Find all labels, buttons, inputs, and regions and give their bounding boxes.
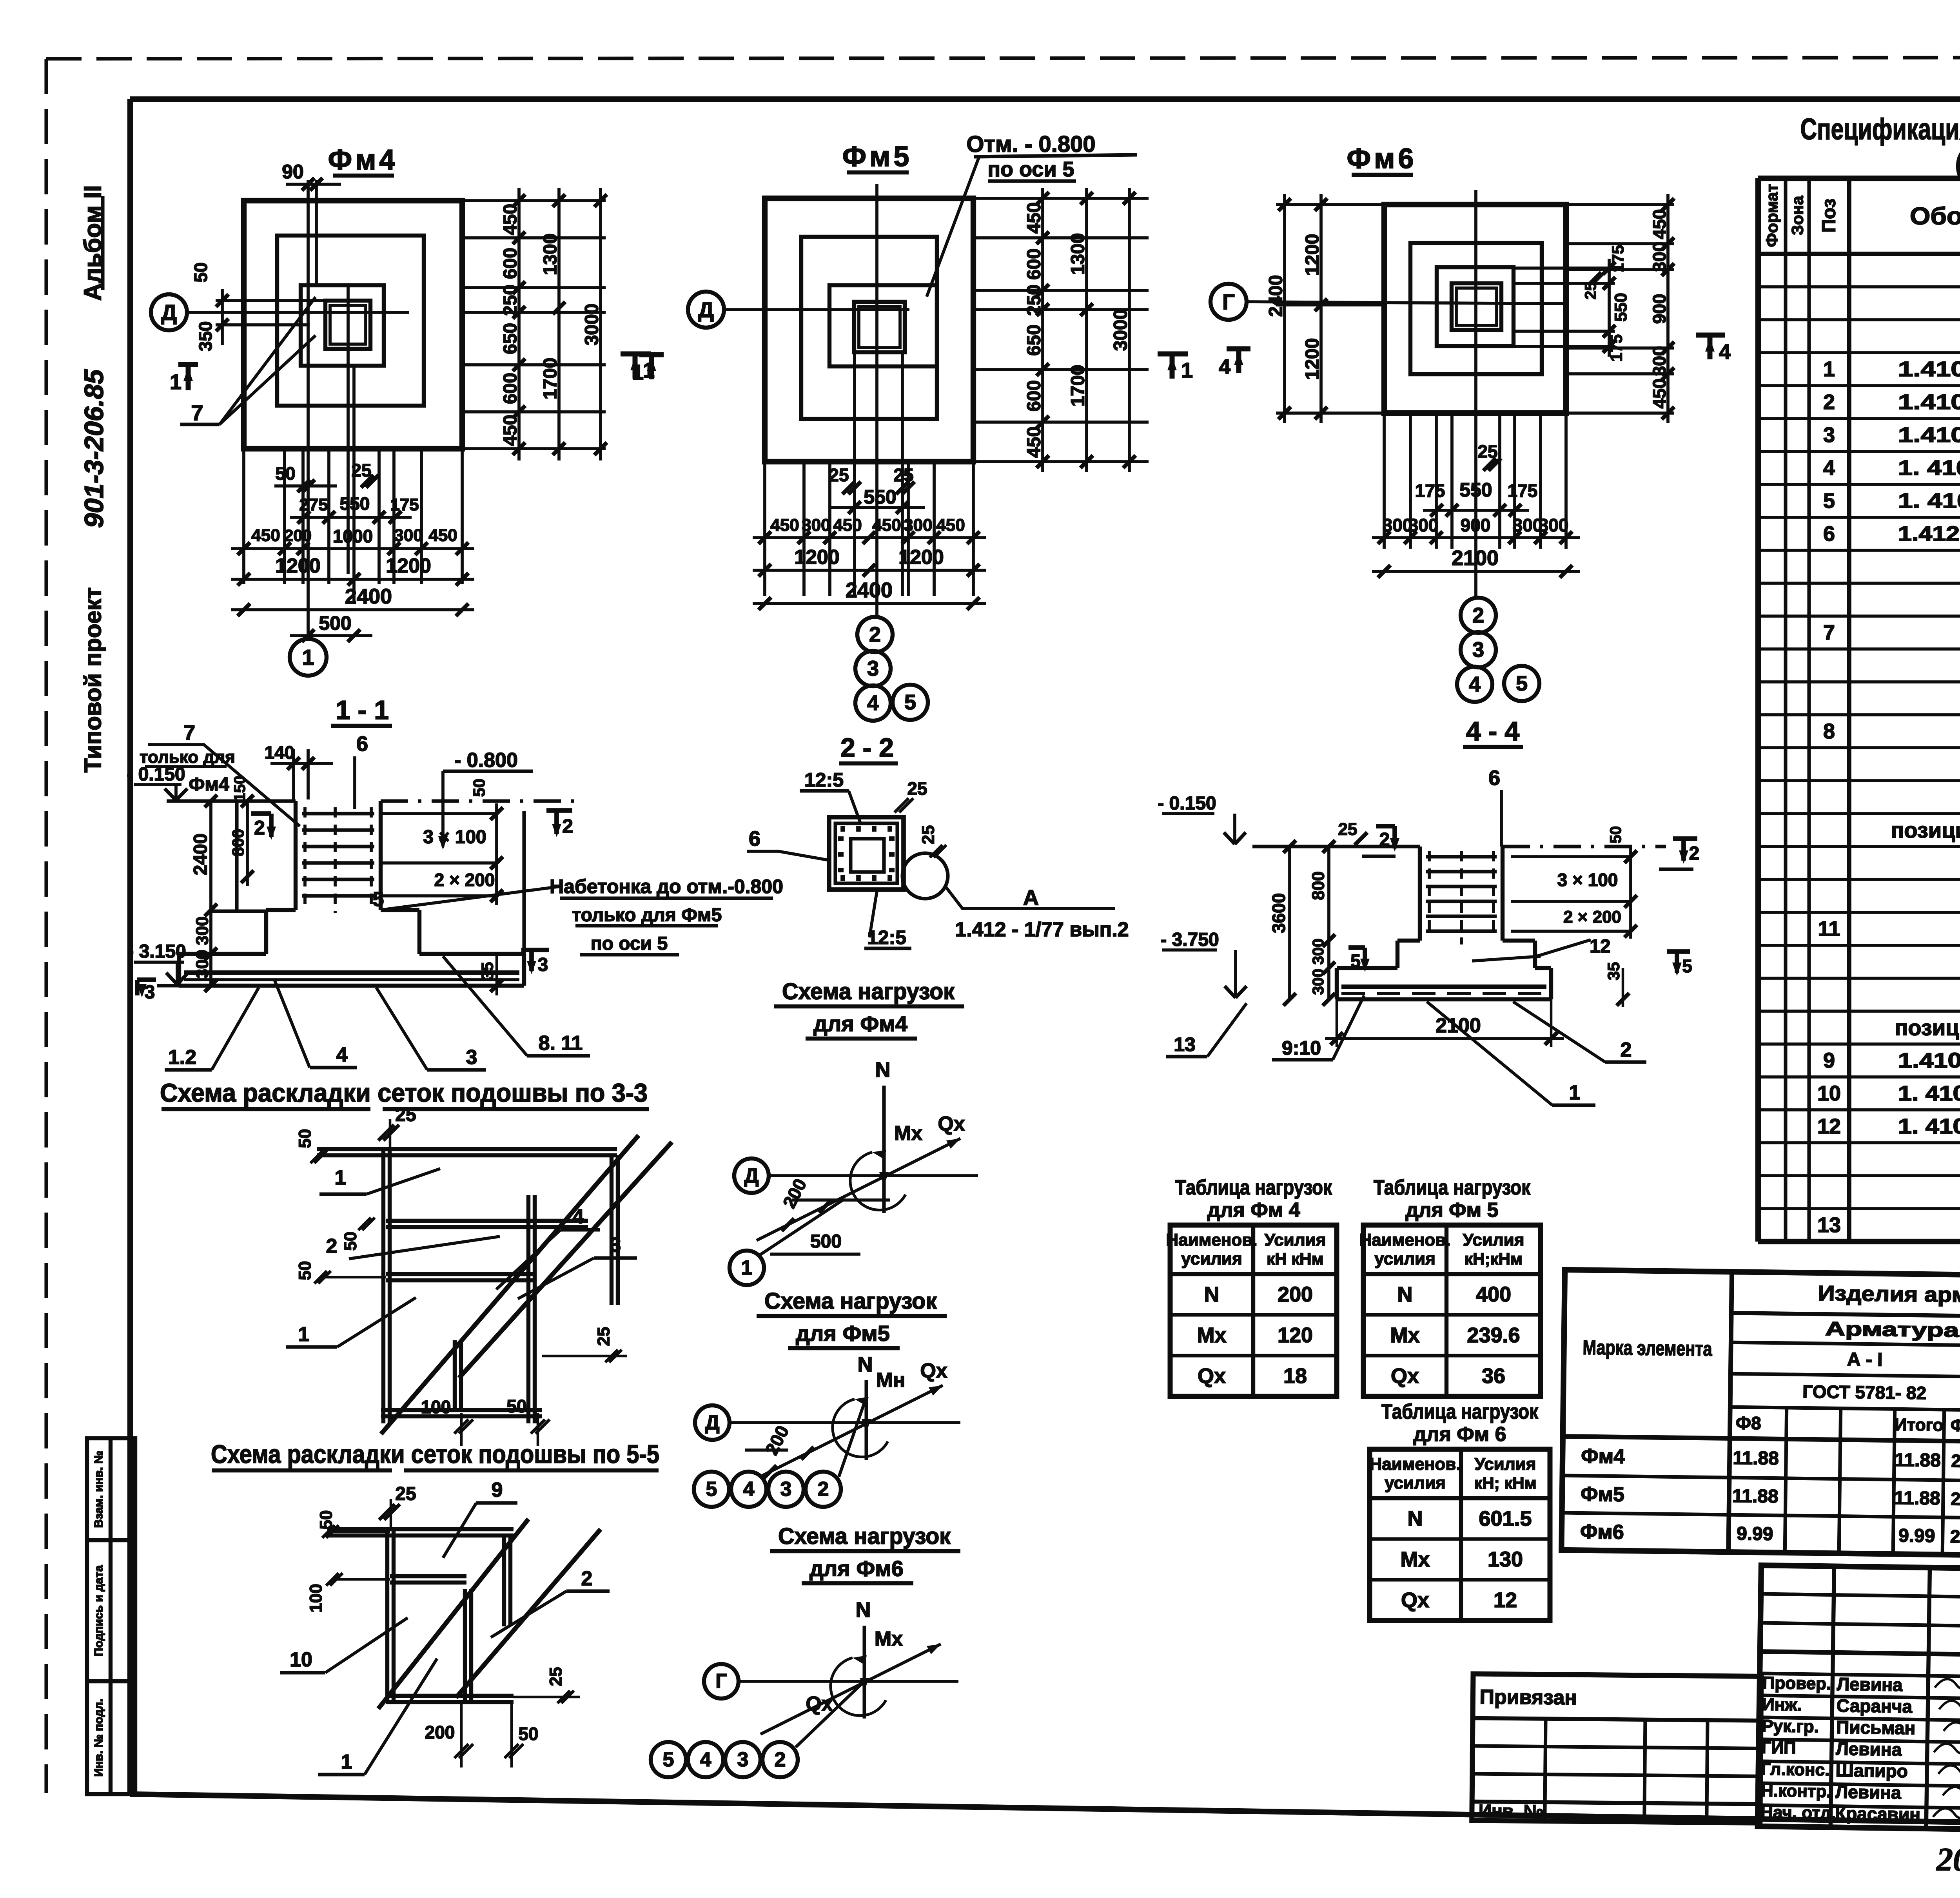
svg-text:1 - 1: 1 - 1 — [336, 695, 389, 725]
section 2-2 rebar dots — [840, 826, 845, 832]
svg-text:2400: 2400 — [1266, 275, 1287, 317]
svg-text:А - I: А - I — [1847, 1349, 1883, 1370]
load scheme Фм5 bubbles 5 4 3 2 — [694, 1472, 729, 1507]
plan Фм4 dim chain 1200 1200 — [231, 578, 474, 581]
svg-text:Привязан: Привязан — [1479, 1686, 1577, 1709]
svg-text:8: 8 — [1823, 720, 1835, 743]
svg-text:4: 4 — [1719, 340, 1731, 364]
svg-text:2400: 2400 — [846, 578, 893, 602]
svg-text:300: 300 — [1408, 515, 1439, 535]
svg-text:Типовой проект: Типовой проект — [80, 587, 106, 773]
plan Фм6 dim chain 300 300 900 300 300 — [1372, 536, 1580, 539]
svg-text:250: 250 — [1024, 285, 1045, 316]
plan Фм4 section mark 1 left — [178, 362, 198, 367]
svg-text:5: 5 — [706, 1478, 717, 1501]
svg-text:25.2: 25.2 — [1951, 1488, 1960, 1509]
svg-text:300: 300 — [1649, 346, 1670, 376]
plan Фм5 right dim extensions — [973, 197, 1149, 200]
plan Фм4 axis 1 bubble — [290, 639, 327, 676]
load scheme Фм4 bubble 1 — [730, 1251, 764, 1285]
svg-text:кН кНм: кН кНм — [1267, 1250, 1323, 1268]
svg-text:1200: 1200 — [1302, 234, 1323, 276]
svg-text:25: 25 — [907, 778, 927, 799]
svg-text:для Фм4: для Фм4 — [813, 1012, 907, 1036]
svg-text:6: 6 — [749, 827, 760, 850]
svg-text:N: N — [1397, 1283, 1413, 1306]
svg-text:Mx: Mx — [1197, 1323, 1226, 1347]
svg-text:200: 200 — [425, 1722, 455, 1742]
plan Фм5 axis 2 vertical — [875, 184, 878, 616]
svg-text:3 × 100: 3 × 100 — [1557, 870, 1618, 890]
svg-text:6: 6 — [1488, 766, 1500, 790]
svg-text:усилия: усилия — [1374, 1249, 1436, 1269]
svg-text:3: 3 — [780, 1478, 792, 1501]
plan Фм5 right dim line 1 — [1041, 188, 1044, 472]
load scheme Фм6 bubbles 5 4 3 2 — [651, 1742, 686, 1777]
svg-text:25: 25 — [919, 825, 938, 845]
plan Фм6 left dim 2400 — [1283, 194, 1286, 423]
plan Фм4 right dim extensions — [462, 199, 606, 202]
svg-text:900: 900 — [1649, 294, 1670, 324]
svg-text:300: 300 — [1539, 515, 1569, 535]
svg-text:(Фм4; Фм5; Фм6): (Фм4; Фм5; Фм6) — [1955, 147, 1960, 181]
svg-text:Наименов.: Наименов. — [1359, 1231, 1450, 1250]
svg-text:Отм. - 0.800: Отм. - 0.800 — [966, 132, 1095, 157]
svg-text:Фм6: Фм6 — [1580, 1521, 1624, 1544]
svg-text:5: 5 — [1350, 951, 1361, 971]
svg-text:для Фм 6: для Фм 6 — [1413, 1423, 1506, 1446]
svg-text:Д: Д — [744, 1164, 759, 1187]
svg-text:800: 800 — [1309, 871, 1328, 900]
svg-text:Усилия: Усилия — [1265, 1231, 1326, 1250]
svg-text:Таблица нагрузок: Таблица нагрузок — [1381, 1400, 1539, 1423]
svg-text:1.410-2. Вып. 1: 1.410-2. Вып. 1 — [1898, 390, 1960, 414]
svg-text:Ф8: Ф8 — [1736, 1412, 1761, 1433]
svg-text:- 0.800: - 0.800 — [454, 749, 518, 772]
svg-text:450: 450 — [500, 204, 521, 235]
svg-text:1: 1 — [302, 645, 314, 670]
svg-text:Красавин: Красавин — [1835, 1803, 1921, 1825]
svg-text:2: 2 — [1689, 843, 1700, 864]
svg-text:Саранча: Саранча — [1837, 1695, 1913, 1717]
svg-text:5: 5 — [373, 888, 384, 911]
svg-text:600: 600 — [500, 373, 521, 404]
svg-text:6: 6 — [356, 732, 368, 756]
svg-text:Изделия арматурные: Изделия арматурные — [1818, 1282, 1960, 1308]
svg-text:1000: 1000 — [333, 526, 373, 546]
svg-text:по оси 5: по оси 5 — [987, 158, 1074, 181]
svg-text:300: 300 — [394, 526, 423, 545]
plan Фм6 middle step outline — [1410, 243, 1542, 374]
svg-text:4: 4 — [573, 1206, 584, 1228]
svg-text:9: 9 — [1823, 1049, 1835, 1072]
svg-text:300: 300 — [802, 516, 830, 535]
scheme 5-5 mesh frame — [327, 1527, 514, 1531]
section 4-4 slab mesh — [1341, 984, 1546, 989]
svg-text:2: 2 — [326, 1235, 338, 1258]
svg-text:2: 2 — [1472, 604, 1484, 627]
svg-text:Mx: Mx — [1400, 1548, 1430, 1571]
svg-text:2: 2 — [775, 1748, 786, 1771]
svg-text:7: 7 — [183, 721, 195, 745]
svg-text:150: 150 — [231, 776, 249, 802]
svg-text:позиции: позиции — [1895, 1015, 1960, 1040]
svg-text:Усилия: Усилия — [1463, 1231, 1524, 1250]
section 4-4 slab — [1337, 966, 1397, 970]
svg-text:600: 600 — [500, 248, 521, 279]
svg-text:450: 450 — [770, 516, 799, 535]
svg-text:4: 4 — [1823, 456, 1835, 480]
plan Фм4 bottom extension lines — [242, 449, 245, 584]
section 4-4 sec mark 2 left — [1376, 824, 1395, 828]
svg-text:175: 175 — [1415, 480, 1445, 501]
svg-text:10: 10 — [290, 1648, 312, 1671]
svg-text:Усилия: Усилия — [1475, 1455, 1536, 1474]
svg-text:ГИП: ГИП — [1761, 1738, 1796, 1758]
svg-text:800: 800 — [229, 829, 247, 856]
svg-text:450: 450 — [833, 516, 862, 535]
svg-text:90: 90 — [282, 161, 304, 183]
svg-text:550: 550 — [864, 486, 896, 508]
svg-text:9:10: 9:10 — [1282, 1037, 1321, 1059]
svg-text:1: 1 — [298, 1323, 310, 1346]
plan Фм4 right dim line 3 — [599, 188, 602, 460]
svg-text:Д: Д — [161, 300, 177, 325]
svg-text:Ф 10: Ф 10 — [1951, 1416, 1960, 1436]
svg-text:25: 25 — [395, 1105, 416, 1126]
svg-text:600: 600 — [1024, 248, 1045, 280]
svg-text:12: 12 — [1817, 1115, 1841, 1138]
load scheme Фм4 second hor line — [792, 1198, 890, 1202]
svg-text:2: 2 — [562, 815, 573, 837]
svg-text:Формат: Формат — [1763, 184, 1781, 247]
plan Фм4 outer outline — [244, 201, 462, 449]
svg-text:- 0.150: - 0.150 — [1158, 793, 1216, 814]
section 4-4 sec mark 5 left — [1348, 945, 1365, 950]
svg-text:Г: Г — [715, 1670, 727, 1693]
svg-text:Рук.гр.: Рук.гр. — [1762, 1717, 1819, 1737]
svg-text:9: 9 — [492, 1479, 503, 1501]
svg-text:1200: 1200 — [386, 555, 431, 577]
plan Фм4 dim 2400 — [231, 608, 474, 611]
svg-text:усилия: усилия — [1385, 1474, 1446, 1493]
svg-text:175: 175 — [390, 495, 419, 515]
svg-text:450: 450 — [872, 516, 901, 535]
plan Фм5 note leader — [927, 158, 979, 297]
svg-text:Схема раскладки сеток по: Схема раскладки сеток подошвы по 3-3 — [160, 1078, 648, 1107]
svg-text:Подпись и дата: Подпись и дата — [93, 1565, 105, 1656]
svg-text:900: 900 — [1461, 515, 1491, 535]
svg-text:1200: 1200 — [275, 555, 321, 577]
plan Фм5 right dim line 3 — [1128, 188, 1131, 472]
svg-text:450: 450 — [1024, 426, 1045, 458]
svg-text:12:5: 12:5 — [867, 926, 906, 948]
svg-text:3: 3 — [1472, 638, 1484, 662]
section 1-1 dim 2400 left — [209, 801, 212, 986]
svg-text:1: 1 — [170, 370, 181, 394]
svg-text:N: N — [1204, 1283, 1220, 1306]
svg-text:18: 18 — [1283, 1364, 1307, 1388]
svg-text:- 0.150: - 0.150 — [127, 764, 185, 785]
svg-text:350: 350 — [195, 321, 216, 352]
svg-text:300: 300 — [1310, 939, 1327, 965]
section 1-1 floor line — [167, 799, 296, 803]
svg-text:5: 5 — [663, 1748, 674, 1771]
plan Фм6 right dim chain — [1666, 194, 1670, 423]
rebar products table — [1561, 1270, 1960, 1565]
svg-text:Таблица нагрузок: Таблица нагрузок — [1374, 1176, 1531, 1199]
svg-text:Схема нагрузок: Схема нагрузок — [782, 979, 955, 1004]
svg-text:550: 550 — [1612, 293, 1631, 321]
svg-text:2: 2 — [254, 817, 265, 839]
section 4-4 sec mark 5 right — [1667, 949, 1690, 954]
svg-text:10: 10 — [1817, 1082, 1841, 1105]
svg-text:Левина: Левина — [1837, 1674, 1903, 1695]
sheet outer dashed border — [46, 57, 1960, 59]
svg-text:50: 50 — [191, 262, 211, 282]
svg-text:Инв. № подл.: Инв. № подл. — [93, 1699, 105, 1777]
svg-text:Qx: Qx — [806, 1693, 833, 1715]
svg-text:7: 7 — [191, 401, 203, 425]
svg-text:Набетонка до отм.-0.800: Набетонка до отм.-0.800 — [550, 876, 783, 897]
svg-text:6: 6 — [1823, 522, 1835, 546]
svg-text:1. 410 - 2. вып. 1: 1. 410 - 2. вып. 1 — [1898, 1115, 1960, 1138]
svg-text:100: 100 — [307, 1584, 326, 1612]
plan Фм6 outer outline — [1384, 205, 1566, 413]
svg-text:кН; кНм: кН; кНм — [1474, 1474, 1536, 1492]
svg-text:ГОСТ 5781- 82: ГОСТ 5781- 82 — [1802, 1381, 1926, 1403]
svg-text:Спецификация монолитных фунд: Спецификация монолитных фундаментов — [1800, 113, 1960, 146]
svg-text:200: 200 — [1278, 1283, 1313, 1306]
svg-text:для Фм 4: для Фм 4 — [1207, 1199, 1300, 1222]
svg-text:4: 4 — [336, 1044, 348, 1066]
section 1-1 dim 800 150 — [246, 801, 249, 886]
svg-text:20388 - 02: 20388 - 02 — [1936, 1842, 1960, 1878]
svg-text:450: 450 — [428, 526, 457, 545]
section 4-4 column outline — [1418, 847, 1422, 941]
svg-text:2 × 200: 2 × 200 — [434, 870, 495, 890]
svg-text:3: 3 — [737, 1748, 749, 1771]
svg-text:600: 600 — [1024, 380, 1045, 412]
svg-text:Таблица нагрузок: Таблица нагрузок — [1175, 1176, 1332, 1199]
svg-text:2: 2 — [869, 623, 881, 646]
svg-text:11.88: 11.88 — [1895, 1450, 1941, 1471]
svg-text:1: 1 — [632, 361, 644, 384]
plan Фм4 dim chain 450 200 1000 300 450 — [231, 547, 474, 550]
plan Фм6 bottom extensions — [1383, 413, 1386, 549]
plan Фм4 right dim line 1 — [517, 188, 521, 460]
svg-text:1200: 1200 — [1302, 338, 1323, 380]
svg-text:25: 25 — [893, 465, 913, 485]
svg-text:275: 275 — [299, 495, 328, 515]
svg-text:2: 2 — [1621, 1039, 1632, 1061]
svg-text:2 - 2: 2 - 2 — [840, 733, 894, 763]
plan Фм4 middle step outline — [277, 236, 424, 406]
svg-text:кН;кНм: кН;кНм — [1465, 1250, 1523, 1268]
svg-text:4: 4 — [743, 1478, 755, 1501]
svg-text:50: 50 — [470, 779, 488, 797]
svg-text:Итого: Итого — [1895, 1415, 1944, 1435]
svg-text:3 × 100: 3 × 100 — [423, 827, 486, 848]
svg-text:Г: Г — [1222, 290, 1235, 314]
svg-text:3: 3 — [538, 955, 548, 975]
section 4-4 dim 800 300 300 — [1327, 847, 1330, 999]
svg-text:11.88: 11.88 — [1894, 1488, 1940, 1509]
svg-text:Инв. №: Инв. № — [1479, 1800, 1544, 1821]
svg-text:500: 500 — [319, 612, 351, 634]
svg-text:550: 550 — [340, 493, 370, 514]
svg-text:Фм6: Фм6 — [1347, 143, 1417, 174]
svg-text:1: 1 — [1181, 359, 1193, 382]
svg-text:1300: 1300 — [1068, 233, 1089, 275]
svg-text:Арматура класса: Арматура класса — [1825, 1318, 1960, 1342]
scheme 3-3 diagonals — [381, 1135, 639, 1434]
section 2-2 column square mid — [835, 823, 897, 883]
section 1-1 ground line — [157, 984, 179, 987]
svg-text:Наименов.: Наименов. — [1369, 1455, 1461, 1474]
svg-text:2400: 2400 — [345, 585, 392, 608]
svg-text:1. 410 - 2. вып. 1: 1. 410 - 2. вып. 1 — [1898, 1082, 1960, 1105]
svg-text:50: 50 — [518, 1724, 538, 1744]
svg-text:2: 2 — [1379, 830, 1390, 850]
plan Фм5 dim chain 450 300 450 450 300 450 — [753, 536, 986, 539]
svg-text:4: 4 — [700, 1748, 711, 1771]
svg-text:3: 3 — [145, 982, 155, 1003]
svg-text:36: 36 — [1482, 1364, 1505, 1388]
svg-text:2 × 200: 2 × 200 — [1563, 908, 1621, 927]
svg-text:1.410-2. Вып. 1: 1.410-2. Вып. 1 — [1898, 357, 1960, 381]
svg-text:650: 650 — [500, 323, 521, 354]
svg-text:239.6: 239.6 — [1467, 1323, 1520, 1347]
plan Фм6 left dim line 1200 1200 — [1319, 194, 1323, 423]
svg-text:9.99: 9.99 — [1737, 1523, 1773, 1545]
svg-text:120: 120 — [1278, 1323, 1313, 1347]
svg-text:50: 50 — [296, 1261, 315, 1280]
svg-text:Провер.: Провер. — [1762, 1673, 1831, 1693]
svg-text:7: 7 — [1823, 621, 1835, 644]
svg-text:8. 11: 8. 11 — [539, 1032, 583, 1055]
plan Фм6 axis bubbles 2 3 4 5 — [1461, 598, 1496, 633]
svg-text:Левина: Левина — [1835, 1782, 1902, 1803]
section 2-2 detail circle А — [902, 853, 948, 899]
section 2-2 column square inner — [851, 839, 884, 872]
svg-text:100: 100 — [421, 1397, 451, 1417]
svg-text:3: 3 — [610, 1234, 621, 1256]
section 1-1 sec mark 3 right — [521, 948, 549, 952]
section 1-1 набетонка outline right — [522, 811, 526, 954]
svg-text:5: 5 — [904, 691, 916, 714]
svg-text:Фм4: Фм4 — [328, 144, 398, 176]
svg-text:200: 200 — [284, 526, 312, 545]
svg-text:Нач. отд.: Нач. отд. — [1760, 1803, 1836, 1823]
svg-text:3: 3 — [1823, 423, 1835, 447]
svg-text:12:5: 12:5 — [804, 769, 844, 791]
svg-text:250: 250 — [500, 285, 521, 316]
section 1-1 sec mark 2 left — [251, 811, 271, 816]
svg-text:1: 1 — [335, 1166, 346, 1189]
plan Фм5 anchor verticals — [853, 352, 856, 508]
section 1-1 slab mesh — [184, 970, 519, 975]
svg-text:3600: 3600 — [1269, 893, 1289, 933]
plan Фм4 right dim line 2 — [557, 188, 561, 460]
svg-text:50: 50 — [506, 1396, 526, 1416]
svg-text:650: 650 — [1024, 324, 1045, 356]
section 1-1 sec mark 3 left — [135, 980, 140, 995]
plan Фм6 pedestal outline — [1437, 267, 1514, 346]
section 4-4 sec mark 2 right — [1673, 836, 1697, 841]
svg-text:N: N — [856, 1598, 871, 1622]
svg-text:1.412 - 1/77 вып.2: 1.412 - 1/77 вып.2 — [955, 918, 1129, 941]
svg-text:11.88: 11.88 — [1732, 1486, 1779, 1507]
svg-text:Д: Д — [705, 1411, 719, 1434]
svg-text:35: 35 — [1604, 962, 1623, 981]
svg-text:Фм4: Фм4 — [1581, 1445, 1625, 1468]
svg-text:Марка элемента: Марка элемента — [1583, 1336, 1713, 1361]
svg-text:позиции: позиции — [1891, 818, 1960, 843]
svg-text:Наименов.: Наименов. — [1166, 1231, 1257, 1250]
section 4-4 dims 3x100 2x200 — [1511, 855, 1631, 858]
specification table grid — [1758, 176, 1960, 181]
svg-text:для Фм6: для Фм6 — [809, 1556, 904, 1581]
plan Фм5 axis bubbles 2 3 4 5 — [857, 617, 893, 652]
svg-text:1. 410-2. Вып. 1: 1. 410-2. Вып. 1 — [1898, 456, 1960, 480]
section 1-1 slab — [179, 952, 266, 956]
plan Фм4 dim 500 — [290, 634, 372, 637]
svg-text:только для Фм5: только для Фм5 — [572, 905, 722, 926]
svg-text:13: 13 — [1174, 1033, 1196, 1055]
plan Фм5 anchor plate — [854, 302, 905, 352]
svg-text:1.410-2. Вып. 1: 1.410-2. Вып. 1 — [1898, 423, 1960, 447]
svg-text:50: 50 — [341, 1232, 360, 1251]
section 1-1 pedestal — [266, 908, 296, 912]
svg-text:13: 13 — [1817, 1213, 1841, 1237]
svg-text:2400: 2400 — [191, 834, 211, 876]
svg-text:Поз: Поз — [1819, 198, 1840, 232]
svg-text:Обозначение: Обозначение — [1910, 203, 1960, 230]
plan Фм6 anchor plate — [1452, 283, 1501, 330]
svg-text:1.410 - 2. вып. 1: 1.410 - 2. вып. 1 — [1898, 1049, 1960, 1072]
svg-text:450: 450 — [1024, 202, 1045, 234]
section 4-4 dim 2100 — [1325, 1037, 1564, 1040]
section 2-2 column square outer — [829, 817, 904, 890]
svg-text:4: 4 — [867, 691, 879, 715]
svg-text:1: 1 — [341, 1751, 352, 1773]
svg-text:N: N — [1408, 1507, 1423, 1530]
plan Фм5 outer outline — [765, 198, 973, 462]
svg-text:400: 400 — [1476, 1283, 1511, 1306]
svg-text:450: 450 — [936, 516, 965, 535]
svg-text:Левина: Левина — [1836, 1738, 1902, 1760]
svg-text:- 3.750: - 3.750 — [1160, 930, 1219, 950]
privyazan box — [1472, 1674, 1761, 1823]
svg-text:1200: 1200 — [898, 546, 944, 569]
svg-text:2100: 2100 — [1452, 546, 1499, 570]
plan Фм6 right dim extensions — [1566, 203, 1674, 206]
plan Фм5 middle step outline — [801, 237, 937, 419]
svg-text:Mx: Mx — [1390, 1323, 1419, 1347]
plan Фм4 axis 1 vertical — [307, 180, 310, 639]
plan Фм4 left small dims 50 350 — [216, 299, 325, 302]
svg-text:Схема раскладки сеток под: Схема раскладки сеток подошвы по 5-5 — [211, 1439, 659, 1468]
svg-text:N: N — [858, 1353, 873, 1376]
svg-text:450: 450 — [500, 415, 521, 446]
svg-text:450: 450 — [251, 526, 280, 545]
svg-text:300: 300 — [193, 916, 212, 945]
svg-text:1.2: 1.2 — [168, 1046, 196, 1069]
plan Фм4 section mark 1 right — [621, 352, 651, 357]
svg-text:550: 550 — [1459, 479, 1492, 501]
svg-text:Взам. инв. №: Взам. инв. № — [93, 1451, 105, 1528]
